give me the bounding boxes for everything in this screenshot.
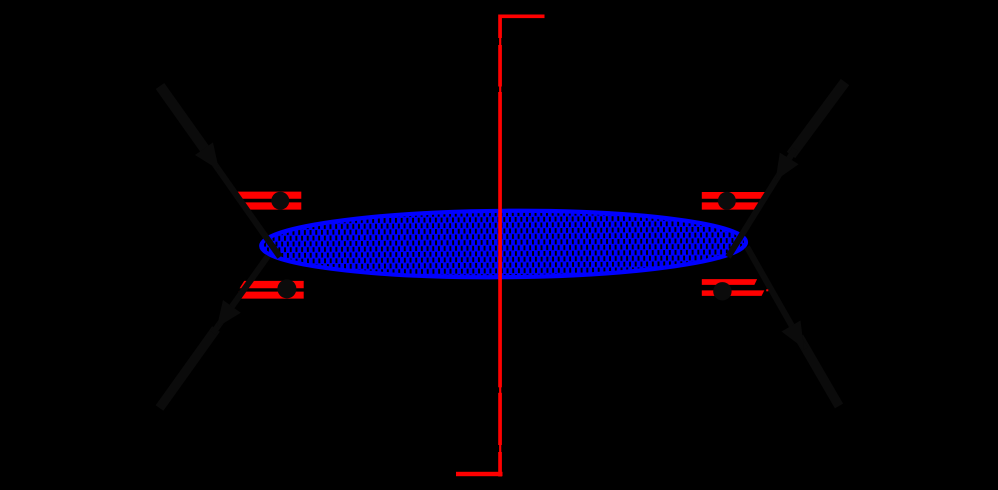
pi-bond electron cloud (hatched blue ellipse) (261, 209, 746, 279)
axis notch mid-lower (498, 387, 499, 393)
axis notch upper (498, 38, 499, 45)
left p-orbital lower lobe (red hatch stripes) (239, 281, 304, 299)
upper-left sigma bond line with arrowhead (160, 86, 280, 257)
right carbon nucleus lower (black dot) (713, 282, 731, 300)
axis top serif (499, 15, 545, 19)
right carbon nucleus upper (black dot) (718, 192, 736, 210)
axis notch mid-upper (498, 87, 499, 93)
right p-orbital upper lobe (red hatch stripes) (702, 192, 767, 210)
upper-right sigma bond line with arrowhead (728, 82, 845, 257)
lower-right sigma bond line with arrowhead (747, 247, 839, 406)
left carbon nucleus upper (black dot) (271, 192, 289, 210)
right lower lobe red speck (766, 289, 768, 291)
axis bottom serif (456, 472, 503, 476)
right p-orbital lower lobe (red hatch stripes) (702, 279, 765, 296)
rotation axis (red vertical line) (498, 15, 502, 477)
left carbon nucleus lower (black dot) (277, 279, 296, 298)
axis notch lower (498, 445, 499, 452)
left p-orbital upper lobe (red hatch stripes) (237, 192, 301, 210)
lower-left sigma bond line with arrowhead (160, 256, 269, 408)
